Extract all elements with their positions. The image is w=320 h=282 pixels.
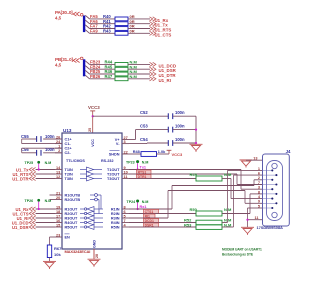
svg-text:16: 16 <box>56 219 60 223</box>
wire U1_DTR to pin <box>36 178 55 180</box>
U13 right pin 4 <box>122 226 129 228</box>
svg-text:21: 21 <box>56 191 60 195</box>
svg-text:VCC3: VCC3 <box>88 105 100 110</box>
wire U1_Rx to pin <box>36 208 55 210</box>
svg-text:11: 11 <box>254 216 258 220</box>
wire Tx1 T1OUT to J4 pin3 <box>129 169 241 171</box>
wire R50 to J4 pin8 <box>222 213 250 215</box>
svg-text:MAX3243ECAI: MAX3243ECAI <box>65 249 91 254</box>
svg-text:28: 28 <box>95 254 99 258</box>
wire C53 to gnd rail <box>173 129 196 131</box>
svg-text:1: 1 <box>58 145 60 149</box>
off-page connector U1_Tx <box>150 22 156 26</box>
net label DSR1 <box>144 223 159 227</box>
U13 left pin 23 <box>55 236 62 238</box>
svg-text:R4OUT: R4OUT <box>65 221 79 225</box>
bus entry wire FA7 <box>85 25 89 29</box>
bus entry wire FA6 <box>85 20 89 24</box>
power symbol VCC3 at R48 <box>167 149 172 151</box>
junction pin11 gnd <box>246 219 248 221</box>
ground R67 <box>43 261 56 269</box>
wire R40 to off-page <box>128 18 150 20</box>
wire R53 to J4 pin6 <box>222 226 234 228</box>
U13 right pin 22 <box>122 153 129 155</box>
svg-text:7: 7 <box>258 181 260 185</box>
svg-text:EN: EN <box>65 235 71 239</box>
junction C54 rail <box>195 142 197 144</box>
ground cap rail <box>190 144 203 152</box>
wire R44 to off-page <box>128 63 150 65</box>
U13 left pin 1 <box>55 147 62 149</box>
wire FB24 to resistor <box>90 68 116 70</box>
wire C54 to gnd rail <box>173 142 196 144</box>
off-page connector U1_DSR <box>150 67 156 71</box>
U13 left pin 15 <box>55 226 62 228</box>
bus PA vertical bar <box>83 16 85 33</box>
U13 receiver buffer y213.5 <box>80 211 103 216</box>
svg-text:R1IN: R1IN <box>111 207 120 211</box>
net label RTS1 <box>137 170 152 174</box>
svg-text:RS-232: RS-232 <box>101 159 114 163</box>
wire Rx1 R1IN to J4 pin2 <box>129 208 172 210</box>
wire J4 pin11 gnd <box>248 219 263 221</box>
U13 right pin 6 <box>122 213 129 215</box>
svg-text:SHDN: SHDN <box>109 152 120 156</box>
svg-text:TTL/CMOS: TTL/CMOS <box>66 159 85 163</box>
svg-text:R47: R47 <box>105 74 113 79</box>
U13 left pin 13 <box>55 173 62 175</box>
wire V+ pin to C53 <box>129 139 136 141</box>
off-page connector U1_RTS <box>150 26 156 30</box>
wire U13 GND pin to ground <box>93 249 95 259</box>
U13 receiver buffer y218.0 <box>80 216 103 221</box>
svg-text:5: 5 <box>258 204 260 208</box>
U13 left pin 12 <box>55 178 62 180</box>
op-amp U1 IC U13 MAX3243ECAI body <box>62 133 122 249</box>
svg-text:26: 26 <box>56 135 60 139</box>
wire R49 to J4 pin4 <box>222 178 231 180</box>
resistor R45 N.M <box>115 67 128 71</box>
svg-text:TP25: TP25 <box>25 161 34 165</box>
svg-text:U1_RI: U1_RI <box>159 78 171 83</box>
svg-text:100n: 100n <box>175 110 185 115</box>
wire R2OUTB stub <box>50 199 56 201</box>
U13 left pin 18 <box>55 213 62 215</box>
svg-text:FA9: FA9 <box>90 29 98 34</box>
resistor R46 N.M <box>115 72 128 76</box>
svg-text:R1OUT: R1OUT <box>65 207 79 211</box>
wire R43 to off-page <box>128 32 150 34</box>
U13 right pin 7 <box>122 222 129 224</box>
wire R42 to off-page <box>128 28 150 30</box>
U13 driver buffer y169.5 <box>80 167 102 172</box>
svg-text:R3OUT: R3OUT <box>65 216 79 220</box>
U13 left pin 24 <box>55 143 62 145</box>
off-page connector U1_CTS <box>150 31 156 35</box>
wire U1_Tx to pin <box>36 169 55 171</box>
wire FA9 to resistor <box>90 32 116 34</box>
svg-text:TP24: TP24 <box>127 200 136 204</box>
svg-text:8: 8 <box>258 190 260 194</box>
U13 receiver buffer y227.0 <box>80 225 103 230</box>
net label RI1 <box>144 214 156 218</box>
svg-text:R5OUT: R5OUT <box>65 225 79 229</box>
svg-text:TP26: TP26 <box>25 199 34 203</box>
U13 driver buffer y178.5 <box>80 176 102 181</box>
svg-text:R2OUTB: R2OUTB <box>65 198 81 202</box>
ground U13 GND <box>88 259 101 267</box>
bus entry wire FB25 <box>85 70 89 74</box>
svg-text:7: 7 <box>124 219 126 223</box>
svg-text:R2OUT: R2OUT <box>65 212 79 216</box>
ground J4 shield pin 13 <box>240 160 253 168</box>
svg-text:T1IN: T1IN <box>65 168 73 172</box>
svg-text:2: 2 <box>58 149 60 153</box>
svg-text:1: 1 <box>258 167 260 171</box>
svg-text:8: 8 <box>124 205 126 209</box>
U13 left pin 21 <box>55 194 62 196</box>
svg-text:19: 19 <box>56 205 60 209</box>
svg-text:10: 10 <box>124 170 128 174</box>
bus entry wire FB23 <box>85 61 89 65</box>
ground J4 pin5/11 <box>241 227 254 235</box>
svg-text:GND: GND <box>93 240 97 248</box>
off-page connector U1_DCD <box>150 62 156 66</box>
svg-text:R67: R67 <box>54 246 62 251</box>
svg-text:C2-: C2- <box>65 151 72 155</box>
wire RI1 R3IN to J4 pin9 <box>129 217 168 219</box>
svg-text:0R: 0R <box>130 29 135 34</box>
svg-text:25: 25 <box>88 128 92 132</box>
svg-text:N.M: N.M <box>45 161 52 165</box>
svg-text:12: 12 <box>56 175 60 179</box>
svg-text:R5IN: R5IN <box>111 225 120 229</box>
bus entry chevron PA <box>73 12 79 16</box>
svg-text:R48: R48 <box>133 150 140 154</box>
svg-text:3: 3 <box>258 186 260 190</box>
wire SHDN pin to R48 <box>129 153 141 155</box>
wire V- pin to C54 <box>129 143 147 145</box>
svg-text:R53: R53 <box>184 222 192 227</box>
svg-text:4,5: 4,5 <box>55 62 62 67</box>
svg-text:17SDB09S08A: 17SDB09S08A <box>257 225 283 230</box>
connector J4 mounting hole top <box>272 163 277 168</box>
wire C56 return <box>21 148 23 153</box>
svg-text:15: 15 <box>56 223 60 227</box>
wire DCD1 R4IN to R52 <box>129 222 196 224</box>
svg-text:9: 9 <box>124 166 126 170</box>
junction TP25 <box>38 168 40 170</box>
svg-text:T2OUT: T2OUT <box>107 172 120 176</box>
U13 left pin 26 <box>55 138 62 140</box>
svg-text:22: 22 <box>124 150 128 154</box>
svg-text:C52: C52 <box>140 110 148 115</box>
resistor R67 10k <box>47 245 51 258</box>
wire FB23 to resistor <box>90 63 116 65</box>
U13 left pin 2 <box>55 152 62 154</box>
U13 receiver buffer y222.5 <box>80 220 103 225</box>
svg-text:T3IN: T3IN <box>65 177 73 181</box>
U13 right pin 8 <box>122 208 129 210</box>
svg-text:Tx1: Tx1 <box>140 165 147 169</box>
wire U1_DSR to pin <box>36 226 55 228</box>
svg-text:T1OUT: T1OUT <box>107 168 120 172</box>
resistor R41 0R <box>115 22 128 26</box>
svg-text:N.M: N.M <box>142 160 149 164</box>
U13 left pin 19 <box>55 208 62 210</box>
off-page connector U1_RI <box>150 77 156 81</box>
svg-text:VCC3: VCC3 <box>172 152 183 157</box>
svg-text:100n: 100n <box>175 123 185 128</box>
U13 receiver buffer y209.0 <box>80 207 103 212</box>
U13 left pin 17 <box>55 217 62 219</box>
svg-text:18: 18 <box>56 210 60 214</box>
svg-text:3: 3 <box>124 140 126 144</box>
U13 left pin 14 <box>55 169 62 171</box>
wire FB26 to resistor <box>90 78 116 80</box>
resistor R42 0R <box>115 27 128 31</box>
U13 left pin 16 <box>55 222 62 224</box>
net label DCD1 <box>144 219 159 223</box>
resistor R40 0R <box>115 17 128 21</box>
svg-text:N.M: N.M <box>142 200 149 204</box>
wire U1_CTS to pin <box>36 213 55 215</box>
U13 right pin 9 <box>122 169 129 171</box>
bus PB vertical bar <box>83 59 85 76</box>
svg-text:U1_CTS: U1_CTS <box>155 32 172 37</box>
svg-text:FB26: FB26 <box>90 74 101 79</box>
svg-text:17: 17 <box>56 214 60 218</box>
U13 R2OUTB internal <box>90 198 99 213</box>
svg-text:6: 6 <box>124 210 126 214</box>
net label DTR1 <box>137 175 152 179</box>
junction TP26 <box>38 208 40 210</box>
wire R41 to off-page <box>128 23 150 25</box>
svg-text:20: 20 <box>56 196 60 200</box>
svg-text:T2IN: T2IN <box>65 172 73 176</box>
svg-text:C54: C54 <box>140 137 148 142</box>
U13 right pin 5 <box>122 217 129 219</box>
wire FA5 to resistor <box>90 18 116 20</box>
svg-text:U1_DTR: U1_DTR <box>12 177 28 182</box>
svg-text:MODEM UART on USART1: MODEM UART on USART1 <box>222 248 262 252</box>
net label CTS1 <box>144 209 159 213</box>
svg-text:5: 5 <box>124 214 126 218</box>
U13 right pin 11 <box>122 178 129 180</box>
wire EN pin to R67 <box>50 236 56 238</box>
wire DSR1 R5IN to R53 <box>129 226 196 228</box>
svg-text:U1_DSR: U1_DSR <box>12 225 29 230</box>
wire RTS1 T2OUT to J4 pin7 <box>129 173 237 175</box>
svg-text:R3IN: R3IN <box>111 216 120 220</box>
svg-text:13: 13 <box>56 170 60 174</box>
wire R1OUTB stub <box>50 194 56 196</box>
svg-text:C1-: C1- <box>65 142 72 146</box>
svg-text:C1+: C1+ <box>65 137 73 141</box>
connector J4 body <box>263 154 290 226</box>
wire U1_DCD to pin <box>36 222 55 224</box>
wire R46 to off-page <box>128 73 150 75</box>
svg-text:R2IN: R2IN <box>111 212 120 216</box>
junction VCC3 node <box>92 115 94 117</box>
bus entry wire FB26 <box>85 75 89 79</box>
svg-text:100n: 100n <box>175 137 185 142</box>
bus entry chevron PB <box>73 58 79 62</box>
gnd rail vertical <box>195 116 197 144</box>
svg-text:N.M: N.M <box>224 172 232 177</box>
svg-text:10k: 10k <box>54 252 61 257</box>
svg-text:R43: R43 <box>103 29 111 34</box>
U13 R1OUTB internal <box>90 194 101 209</box>
svg-text:U13: U13 <box>63 128 72 133</box>
U13 left pin 20 <box>55 199 62 201</box>
svg-text:TP23: TP23 <box>126 160 135 164</box>
wire U1_RTS to pin <box>36 173 55 175</box>
junction C53 rail <box>195 129 197 131</box>
wire VCC3 down to U13 VCC pin <box>92 111 94 133</box>
wire J4 pin5 gnd <box>248 207 263 209</box>
junction TP23 Tx1 <box>137 168 139 170</box>
svg-text:9: 9 <box>258 200 260 204</box>
svg-text:C2+: C2+ <box>65 147 73 151</box>
off-page connector U1_Rx <box>150 17 156 21</box>
svg-text:C53: C53 <box>140 123 148 128</box>
svg-text:2: 2 <box>258 176 260 180</box>
wire U1_RI to pin <box>36 217 55 219</box>
U13 driver buffer y174.0 <box>80 172 102 177</box>
resistor R43 0R <box>115 31 128 35</box>
wire FA6 to resistor <box>90 23 116 25</box>
svg-text:11: 11 <box>124 175 128 179</box>
U13 right pin 3 <box>122 143 129 145</box>
resistor R44 N.M <box>115 63 128 67</box>
svg-text:13: 13 <box>253 157 257 161</box>
wire VCC3 to C52 <box>93 115 168 117</box>
resistor R47 N.M <box>115 77 128 81</box>
svg-text:100n: 100n <box>45 147 55 152</box>
wire R47 to off-page <box>128 78 150 80</box>
wire CTS1 R2IN to R50 <box>129 213 196 215</box>
svg-text:N.M: N.M <box>130 74 138 79</box>
svg-text:Bestueckung as DTE: Bestueckung as DTE <box>222 252 254 256</box>
connector J4 mounting hole bottom <box>272 212 277 217</box>
off-page connector U1_DTR <box>150 72 156 76</box>
svg-text:Rx1: Rx1 <box>140 205 147 209</box>
svg-text:VCC: VCC <box>91 139 95 147</box>
junction TP24 Rx1 <box>137 208 139 210</box>
svg-text:N.M: N.M <box>224 207 232 212</box>
wire DTR1 T3OUT to R49 <box>129 178 196 180</box>
connector J4 D-sub face <box>267 161 283 221</box>
U13 right pin 10 <box>122 173 129 175</box>
svg-text:6: 6 <box>258 172 260 176</box>
wire R45 to off-page <box>128 68 150 70</box>
bus entry wire FA5 <box>85 15 89 19</box>
wire FB25 to resistor <box>90 73 116 75</box>
wire R52 to J4 pin1 <box>222 222 228 224</box>
wire C55 return <box>21 139 23 144</box>
svg-text:4,5: 4,5 <box>55 15 62 20</box>
svg-text:23: 23 <box>56 233 60 237</box>
wire R67 to ground <box>49 258 51 262</box>
svg-text:T3OUT: T3OUT <box>107 177 120 181</box>
svg-text:R4IN: R4IN <box>111 221 120 225</box>
svg-text:C55: C55 <box>21 134 29 139</box>
bus entry wire FA9 <box>85 30 89 34</box>
U13 right pin 27 <box>122 139 129 141</box>
wire FA7 to resistor <box>90 28 116 30</box>
wire R48 to VCC3 <box>157 153 170 155</box>
svg-text:J4: J4 <box>286 149 291 154</box>
bus entry wire FB24 <box>85 66 89 70</box>
svg-text:100n: 100n <box>45 134 55 139</box>
svg-text:R1OUTB: R1OUTB <box>65 193 81 197</box>
wire C52 to gnd rail <box>173 115 196 117</box>
